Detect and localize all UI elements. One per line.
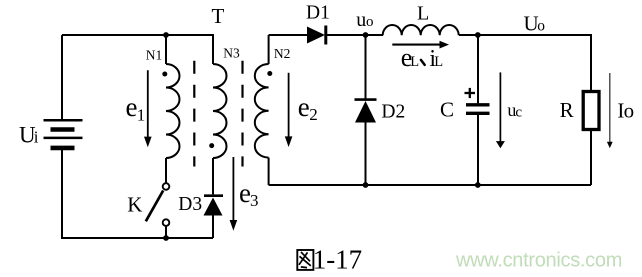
svg-text:o: o (624, 99, 635, 123)
svg-text:R: R (560, 98, 574, 122)
svg-text:o: o (366, 14, 374, 30)
svg-text:3: 3 (250, 191, 259, 210)
svg-text:1: 1 (137, 105, 146, 124)
svg-text:L: L (417, 3, 429, 25)
svg-text:L: L (434, 54, 443, 70)
svg-text:D1: D1 (306, 3, 330, 24)
svg-text:e: e (126, 92, 138, 122)
svg-text:u: u (356, 9, 366, 31)
svg-text:www.cntronics.com: www.cntronics.com (455, 250, 622, 272)
svg-text:1-17: 1-17 (313, 245, 363, 275)
svg-text:2: 2 (309, 105, 318, 124)
svg-text:L: L (410, 54, 419, 70)
svg-text:K: K (127, 192, 142, 216)
svg-text:D2: D2 (381, 101, 405, 122)
svg-text:e: e (298, 92, 310, 122)
svg-text:T: T (212, 4, 225, 28)
svg-text:N3: N3 (223, 46, 240, 61)
svg-text:N2: N2 (274, 46, 291, 61)
svg-text:C: C (440, 98, 454, 122)
svg-text:D3: D3 (178, 194, 202, 215)
svg-text:i: i (34, 127, 39, 146)
svg-text:o: o (537, 18, 545, 35)
svg-text:c: c (515, 104, 522, 120)
svg-text:N1: N1 (146, 48, 163, 63)
